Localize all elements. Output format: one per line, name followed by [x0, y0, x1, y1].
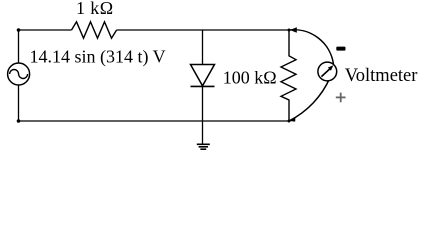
- svg-text:14.14 sin (314 t) V: 14.14 sin (314 t) V: [30, 47, 166, 68]
- wire left vertical upper: [18, 30, 20, 63]
- resistor R1 1 kOhm zigzag: [72, 22, 117, 38]
- wire voltmeter bottom arc: [289, 78, 330, 121]
- wire left vertical lower: [18, 85, 20, 121]
- wire voltmeter top arc: [289, 30, 334, 65]
- terminal plus mark: [336, 93, 346, 103]
- ground symbol: [197, 144, 210, 149]
- voltmeter needle arrowhead: [328, 65, 334, 70]
- wire bottom horizontal: [19, 120, 290, 122]
- wire diode branch upper: [202, 30, 204, 65]
- diode D1 triangle: [191, 65, 215, 86]
- wire top horizontal: [19, 29, 72, 31]
- voltmeter needle: [321, 69, 329, 77]
- wire diode branch lower (through bottom wire to ground): [202, 86, 204, 144]
- svg-text:Voltmeter: Voltmeter: [345, 66, 418, 86]
- arrow at bottom junction: [289, 117, 295, 122]
- AC source V1 circle: [8, 63, 30, 85]
- resistor R2 100 kOhm vertical zigzag: [281, 30, 296, 121]
- node top-left corner dot: [17, 28, 21, 32]
- AC source V1 sine wave: [10, 70, 28, 79]
- node bottom-right junction dot: [288, 120, 291, 123]
- arrow at top junction: [290, 27, 297, 33]
- wire top horizontal right of R1: [117, 29, 289, 31]
- terminal minus mark: [336, 47, 345, 51]
- svg-text:1 kΩ: 1 kΩ: [76, 0, 113, 18]
- diode D1 cathode bar: [191, 85, 215, 87]
- svg-text:100 kΩ: 100 kΩ: [223, 68, 277, 88]
- node bottom-left corner dot: [17, 119, 21, 123]
- voltmeter U1 circle: [318, 62, 337, 81]
- node top-right junction dot: [288, 29, 291, 32]
